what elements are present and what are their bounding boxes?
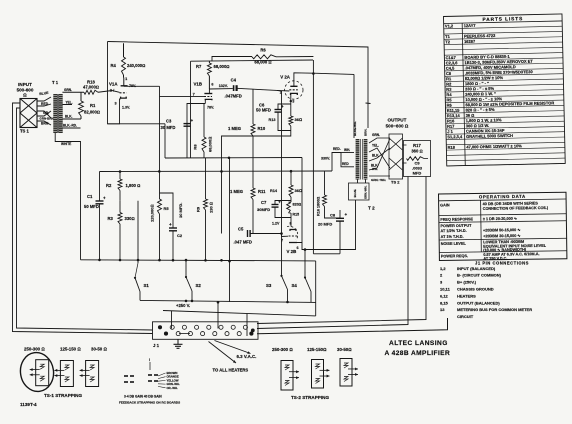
- TS-2 impedance labels: [272, 347, 352, 352]
- svg-text:6.3 V.A.C.: 6.3 V.A.C.: [237, 354, 257, 359]
- wire J1 bottom rail: [257, 318, 448, 334]
- svg-text:S1,2,3,4: S1,2,3,4: [447, 134, 463, 139]
- svg-text:YEL.: YEL.: [66, 100, 73, 104]
- svg-text:R14: R14: [270, 189, 278, 193]
- resistor R15: [287, 200, 302, 227]
- capacitor C1: [84, 172, 106, 260]
- svg-text:R16 1800Ω: R16 1800Ω: [317, 197, 321, 216]
- svg-text:B+ (250V.): B+ (250V.): [457, 280, 477, 285]
- svg-text:B- (CIRCUIT COMMON): B- (CIRCUIT COMMON): [457, 273, 502, 278]
- svg-text:Ω: Ω: [23, 93, 27, 98]
- TS-1 strap 250-300: [18, 350, 56, 393]
- switch S1: [134, 201, 150, 301]
- svg-text:125-150 Ω: 125-150 Ω: [60, 347, 81, 352]
- tube V2B: [272, 222, 299, 255]
- svg-text:10,11: 10,11: [440, 287, 451, 292]
- svg-text:R18: R18: [448, 145, 456, 150]
- svg-text:R4: R4: [111, 63, 117, 68]
- wire B+ feed: [313, 253, 340, 255]
- svg-text:POWER OUTPUT: POWER OUTPUT: [440, 224, 472, 228]
- svg-text:OPERATING DATA: OPERATING DATA: [479, 194, 526, 200]
- svg-text:78V.: 78V.: [207, 105, 214, 109]
- svg-text:OR.-WH.: OR.-WH.: [167, 386, 179, 390]
- svg-text:36Ω: 36Ω: [295, 188, 303, 193]
- wire rail to T2 red-wh: [332, 147, 341, 171]
- svg-text:330V.: 330V.: [321, 157, 330, 161]
- resistor R4: [111, 43, 146, 77]
- resistor R7: [196, 61, 230, 89]
- svg-text:+20DBM 50-15,000 ∿: +20DBM 50-15,000 ∿: [483, 228, 521, 233]
- wire ground bus: [81, 259, 316, 316]
- tube V2A: [277, 73, 354, 138]
- svg-text:S3: S3: [266, 283, 272, 288]
- svg-text:C4: C4: [231, 78, 237, 83]
- svg-text:GRN.-WH.: GRN.-WH.: [363, 185, 367, 199]
- svg-text:C8: C8: [330, 213, 336, 218]
- resistor R1: [79, 92, 100, 119]
- svg-text:360 Ω: 360 Ω: [411, 149, 422, 154]
- svg-text:16287: 16287: [464, 39, 476, 44]
- svg-text:+250 V.: +250 V.: [176, 303, 190, 308]
- svg-text:47,000Ω: 47,000Ω: [83, 85, 99, 90]
- svg-text:30-50 Ω: 30-50 Ω: [91, 347, 107, 352]
- svg-text:BRN.: BRN.: [364, 129, 368, 136]
- svg-text:YEL.: YEL.: [372, 144, 379, 148]
- svg-text:+: +: [191, 118, 194, 123]
- svg-text:A 428B AMPLIFIER: A 428B AMPLIFIER: [385, 350, 451, 357]
- wire return rail: [228, 158, 231, 302]
- svg-text:BRN: BRN: [41, 122, 49, 126]
- svg-text:J1 PIN CONNECTIONS: J1 PIN CONNECTIONS: [475, 261, 529, 266]
- feedback strapping diagram: [119, 358, 180, 405]
- svg-text:1139T-4: 1139T-4: [20, 402, 37, 407]
- svg-text:7: 7: [193, 92, 195, 96]
- wire V2A cathode to C5: [222, 131, 291, 234]
- resistor R3: [108, 201, 135, 260]
- svg-text:WH.: WH.: [344, 148, 350, 152]
- svg-text:.047MFD: .047MFD: [225, 94, 242, 99]
- resistor R13: [269, 101, 303, 130]
- svg-text:RED: RED: [342, 162, 349, 166]
- svg-text:GRN.: GRN.: [64, 88, 72, 92]
- svg-text:PEERLESS 4722: PEERLESS 4722: [464, 33, 496, 39]
- input label: [17, 82, 34, 98]
- svg-text:68,000 Ω: 68,000 Ω: [254, 60, 271, 65]
- svg-text:± 1 DB 20-20,000 ∿: ± 1 DB 20-20,000 ∿: [483, 217, 518, 221]
- svg-text:J 1: J 1: [153, 343, 160, 348]
- svg-text:BLK.-RD.: BLK.-RD.: [63, 124, 77, 128]
- svg-text:500−600 Ω: 500−600 Ω: [386, 124, 409, 129]
- svg-text:GRN.−WH.: GRN.−WH.: [371, 178, 386, 182]
- TS-1 strap 30-50: [80, 361, 99, 387]
- svg-text:1,2: 1,2: [440, 266, 446, 271]
- wire V2B plate to T2: [293, 200, 356, 250]
- wire V1A plate to V1B grid: [124, 86, 204, 171]
- resistor R16: [317, 171, 341, 218]
- wire V1B plate to C4: [209, 88, 232, 90]
- transformer T2: [353, 121, 375, 211]
- tube V1B: [193, 82, 228, 110]
- terminal strip TS1: [20, 99, 37, 134]
- drawing number 1139T-4: [20, 402, 37, 407]
- svg-text:T 2: T 2: [368, 206, 375, 211]
- resistor R8: [193, 104, 213, 159]
- svg-text:V1A: V1A: [109, 82, 118, 87]
- capacitor C5: [234, 227, 282, 245]
- svg-text:1 MEG: 1 MEG: [228, 126, 241, 131]
- capacitor C8: [318, 210, 348, 254]
- svg-text:10 MFD.: 10 MFD.: [178, 203, 183, 218]
- resistor R6: [212, 48, 313, 65]
- svg-text:12AY7: 12AY7: [464, 23, 477, 28]
- svg-text:RED-: RED-: [333, 147, 341, 151]
- wire V1B stage rails: [191, 60, 314, 158]
- svg-text:250-300 Ω: 250-300 Ω: [272, 347, 293, 352]
- wire +250V bus: [163, 301, 316, 336]
- svg-text:T 1: T 1: [52, 80, 59, 85]
- svg-text:820Ω: 820Ω: [293, 203, 302, 207]
- TS-2 strapping label: [291, 395, 329, 400]
- svg-text:R3: R3: [108, 216, 114, 221]
- svg-text:.047 MFD: .047 MFD: [234, 240, 252, 245]
- svg-text:R5: R5: [164, 206, 170, 211]
- resistor R18: [83, 80, 112, 95]
- svg-text:R1: R1: [90, 103, 96, 108]
- terminal strip TS2: [369, 133, 403, 185]
- svg-text:30 MFD: 30 MFD: [161, 125, 176, 130]
- ground symbol: [174, 339, 183, 348]
- svg-text:82,000Ω: 82,000Ω: [84, 110, 100, 115]
- svg-text:1: 1: [125, 77, 127, 81]
- svg-text:132V.: 132V.: [219, 84, 228, 88]
- svg-text:FREQ RESPONSE: FREQ RESPONSE: [440, 217, 473, 221]
- svg-text:C2: C2: [177, 233, 183, 238]
- parts list table: [444, 14, 566, 166]
- svg-text:30MFD: 30MFD: [257, 207, 270, 212]
- svg-text:125-150Ω: 125-150Ω: [307, 347, 327, 352]
- svg-text:BLUE-WH.: BLUE-WH.: [353, 121, 357, 136]
- svg-text:TS 1: TS 1: [20, 129, 30, 134]
- TS-1 strapping label: [44, 393, 82, 398]
- svg-text:C3: C3: [166, 119, 172, 124]
- transformer T1: [52, 80, 63, 133]
- svg-text:C7: C7: [261, 200, 267, 205]
- svg-text:R13: R13: [269, 118, 276, 122]
- svg-text:1.2V: 1.2V: [272, 222, 280, 226]
- svg-text:BLK.: BLK.: [372, 154, 380, 158]
- wire input pair to J1: [13, 103, 153, 334]
- svg-text:330Ω: 330Ω: [125, 216, 135, 221]
- TS-1 impedance labels: [24, 347, 107, 352]
- connector J1: [153, 322, 259, 348]
- svg-text:68,000Ω: 68,000Ω: [214, 64, 230, 69]
- svg-text:AT 1/2% T.H.D.: AT 1/2% T.H.D.: [440, 229, 466, 233]
- resistor R2: [106, 172, 140, 201]
- svg-text:S4: S4: [292, 283, 298, 288]
- svg-text:R2: R2: [106, 183, 112, 188]
- T1 secondary leads: [55, 88, 84, 260]
- svg-text:R7: R7: [196, 64, 202, 69]
- svg-text:GRN.: GRN.: [372, 133, 380, 137]
- title ALTEC LANSING A428B AMPLIFIER: [385, 340, 451, 357]
- wire top loop to T2: [108, 42, 371, 129]
- svg-text:R8: R8: [193, 144, 198, 150]
- capacitor C2: [160, 193, 184, 261]
- svg-text:3: 3: [292, 100, 294, 104]
- svg-text:C1: C1: [87, 194, 93, 199]
- svg-text:3: 3: [115, 102, 117, 106]
- wire mid rail: [108, 124, 303, 159]
- svg-text:TS-1 STRAPPING: TS-1 STRAPPING: [44, 393, 82, 398]
- wire T2 center tap: [341, 148, 354, 167]
- svg-text:+: +: [103, 196, 106, 201]
- svg-text:GRN-BRN: GRN-BRN: [40, 117, 54, 121]
- svg-text:6,12: 6,12: [440, 293, 449, 298]
- svg-text:1.3V.: 1.3V.: [122, 106, 130, 110]
- svg-text:TO ALL HEATERS: TO ALL HEATERS: [213, 368, 249, 373]
- svg-text:MFD: MFD: [413, 171, 422, 176]
- capacitor C6: [256, 103, 291, 131]
- svg-text:120,000Ω: 120,000Ω: [150, 204, 155, 222]
- svg-text:1 MEG: 1 MEG: [230, 189, 243, 194]
- R17 C9 network: [403, 141, 431, 177]
- svg-text:+: +: [169, 222, 172, 227]
- resistor R10: [228, 89, 266, 158]
- svg-text:13: 13: [440, 307, 445, 312]
- wire rail to V2B: [301, 158, 303, 243]
- capacitor C3: [161, 104, 206, 159]
- tube V1A: [109, 77, 136, 110]
- svg-text:BLUE: BLUE: [353, 189, 357, 197]
- wire output to J1: [257, 177, 426, 329]
- svg-text:V1B: V1B: [194, 82, 203, 87]
- resistor R9: [196, 158, 214, 260]
- svg-text:OUTPUT (BALANCED): OUTPUT (BALANCED): [457, 300, 500, 305]
- wires TS1 to T1: [37, 91, 54, 126]
- svg-text:R9: R9: [196, 206, 201, 212]
- svg-text:6: 6: [211, 82, 213, 86]
- svg-text:AT 1% T.H.D.: AT 1% T.H.D.: [441, 235, 464, 239]
- svg-text:POWER REQS.: POWER REQS.: [441, 254, 468, 258]
- wire B+ riser: [312, 60, 315, 254]
- svg-text:CIRCUIT: CIRCUIT: [457, 314, 474, 319]
- svg-text:PARTS LISTS: PARTS LISTS: [482, 16, 523, 23]
- svg-text:BLK.: BLK.: [65, 115, 73, 119]
- svg-text:WHITE: WHITE: [61, 142, 71, 146]
- svg-text:RED: RED: [41, 102, 49, 106]
- svg-text:NOISE LEVEL: NOISE LEVEL: [441, 242, 467, 246]
- svg-text:36Ω: 36Ω: [295, 117, 303, 122]
- T2 strap terminals: [349, 180, 370, 201]
- TS-2 strap 250-300: [281, 361, 299, 391]
- svg-text:3-4 DB GAIN 40 DB GAIN: 3-4 DB GAIN 40 DB GAIN: [124, 395, 162, 399]
- svg-text:WH.: WH.: [372, 167, 378, 171]
- output label: [386, 118, 409, 129]
- svg-text:V 2B: V 2B: [287, 249, 297, 254]
- svg-text:50 MFD: 50 MFD: [84, 204, 99, 209]
- capacitor C7: [257, 200, 291, 218]
- svg-text:R6: R6: [260, 48, 266, 53]
- heater supply arrows: [209, 341, 257, 373]
- TS-2 strap 125-150: [312, 360, 330, 389]
- svg-text:820 Ω - ″ - ± 5%: 820 Ω - ″ - ± 5%: [465, 107, 495, 113]
- svg-text:HEATERS: HEATERS: [457, 293, 476, 298]
- svg-text:CHASSIS GROUND: CHASSIS GROUND: [457, 287, 494, 292]
- svg-text:METERING BUS FOR COMMON ME: METERING BUS FOR COMMON METER: [457, 307, 532, 312]
- TS-2 strap 30-50: [340, 359, 358, 387]
- svg-text:V 2A: V 2A: [280, 74, 291, 79]
- svg-text:INPUT: INPUT: [18, 82, 32, 87]
- switch S4: [292, 248, 312, 302]
- svg-text:250-300 Ω: 250-300 Ω: [24, 347, 45, 352]
- switch S2: [185, 259, 202, 301]
- svg-text:ALTEC LANSING: ALTEC LANSING: [389, 340, 448, 347]
- svg-text:OUTPUT: OUTPUT: [388, 118, 407, 123]
- svg-text:6: 6: [297, 246, 299, 250]
- svg-text:GRAYHILL 5003 SWITCH: GRAYHILL 5003 SWITCH: [466, 133, 513, 139]
- svg-text:R10: R10: [258, 126, 266, 131]
- resistor R14: [270, 171, 302, 200]
- wire switch bus: [140, 300, 316, 304]
- svg-text:i: i: [149, 358, 150, 362]
- svg-text:50 MFD: 50 MFD: [256, 108, 271, 113]
- svg-text:8,15: 8,15: [440, 300, 449, 305]
- resistor R11: [230, 158, 266, 234]
- svg-text:TS 2: TS 2: [391, 180, 400, 185]
- svg-text:130 Ω: 130 Ω: [209, 202, 214, 213]
- svg-text:+: +: [345, 212, 348, 217]
- svg-text:240,000Ω: 240,000Ω: [127, 63, 145, 68]
- svg-text:R17: R17: [413, 143, 421, 148]
- svg-text:FEEDBACK STRAPPING ON RC B: FEEDBACK STRAPPING ON RC BOARDS: [119, 401, 180, 405]
- svg-text:78V.: 78V.: [129, 84, 136, 88]
- label 330V: [321, 157, 330, 161]
- svg-text:1,800 Ω: 1,800 Ω: [126, 183, 141, 188]
- svg-text:S2: S2: [196, 283, 202, 288]
- operating data table: [439, 192, 567, 261]
- svg-text:+20DBM 30-15,000 ∿: +20DBM 30-15,000 ∿: [483, 234, 521, 239]
- svg-text:V1,2: V1,2: [445, 23, 454, 28]
- svg-text:R11: R11: [258, 189, 266, 194]
- svg-text:C5: C5: [238, 227, 244, 232]
- wire V1A cathode feedback: [108, 42, 121, 124]
- svg-text:GAIN: GAIN: [440, 203, 450, 207]
- resistor R5: [150, 171, 170, 260]
- capacitor C4: [225, 78, 278, 99]
- svg-text:30-50Ω: 30-50Ω: [337, 347, 352, 352]
- svg-text:+: +: [278, 200, 281, 205]
- svg-text:20 MFD: 20 MFD: [318, 222, 332, 227]
- J1 pin connections legend: [440, 261, 532, 320]
- svg-text:S1: S1: [144, 283, 150, 288]
- svg-text:TS-2 STRAPPING: TS-2 STRAPPING: [291, 395, 329, 400]
- wire B+ rail: [100, 170, 333, 173]
- svg-text:R15: R15: [293, 213, 300, 217]
- switch S3: [266, 90, 288, 302]
- TS-1 strap 125-150: [54, 361, 73, 387]
- svg-text:GR.: GR.: [43, 111, 49, 115]
- svg-text:68,000Ω: 68,000Ω: [208, 137, 213, 152]
- svg-text:INPUT (BALANCED): INPUT (BALANCED): [457, 266, 496, 271]
